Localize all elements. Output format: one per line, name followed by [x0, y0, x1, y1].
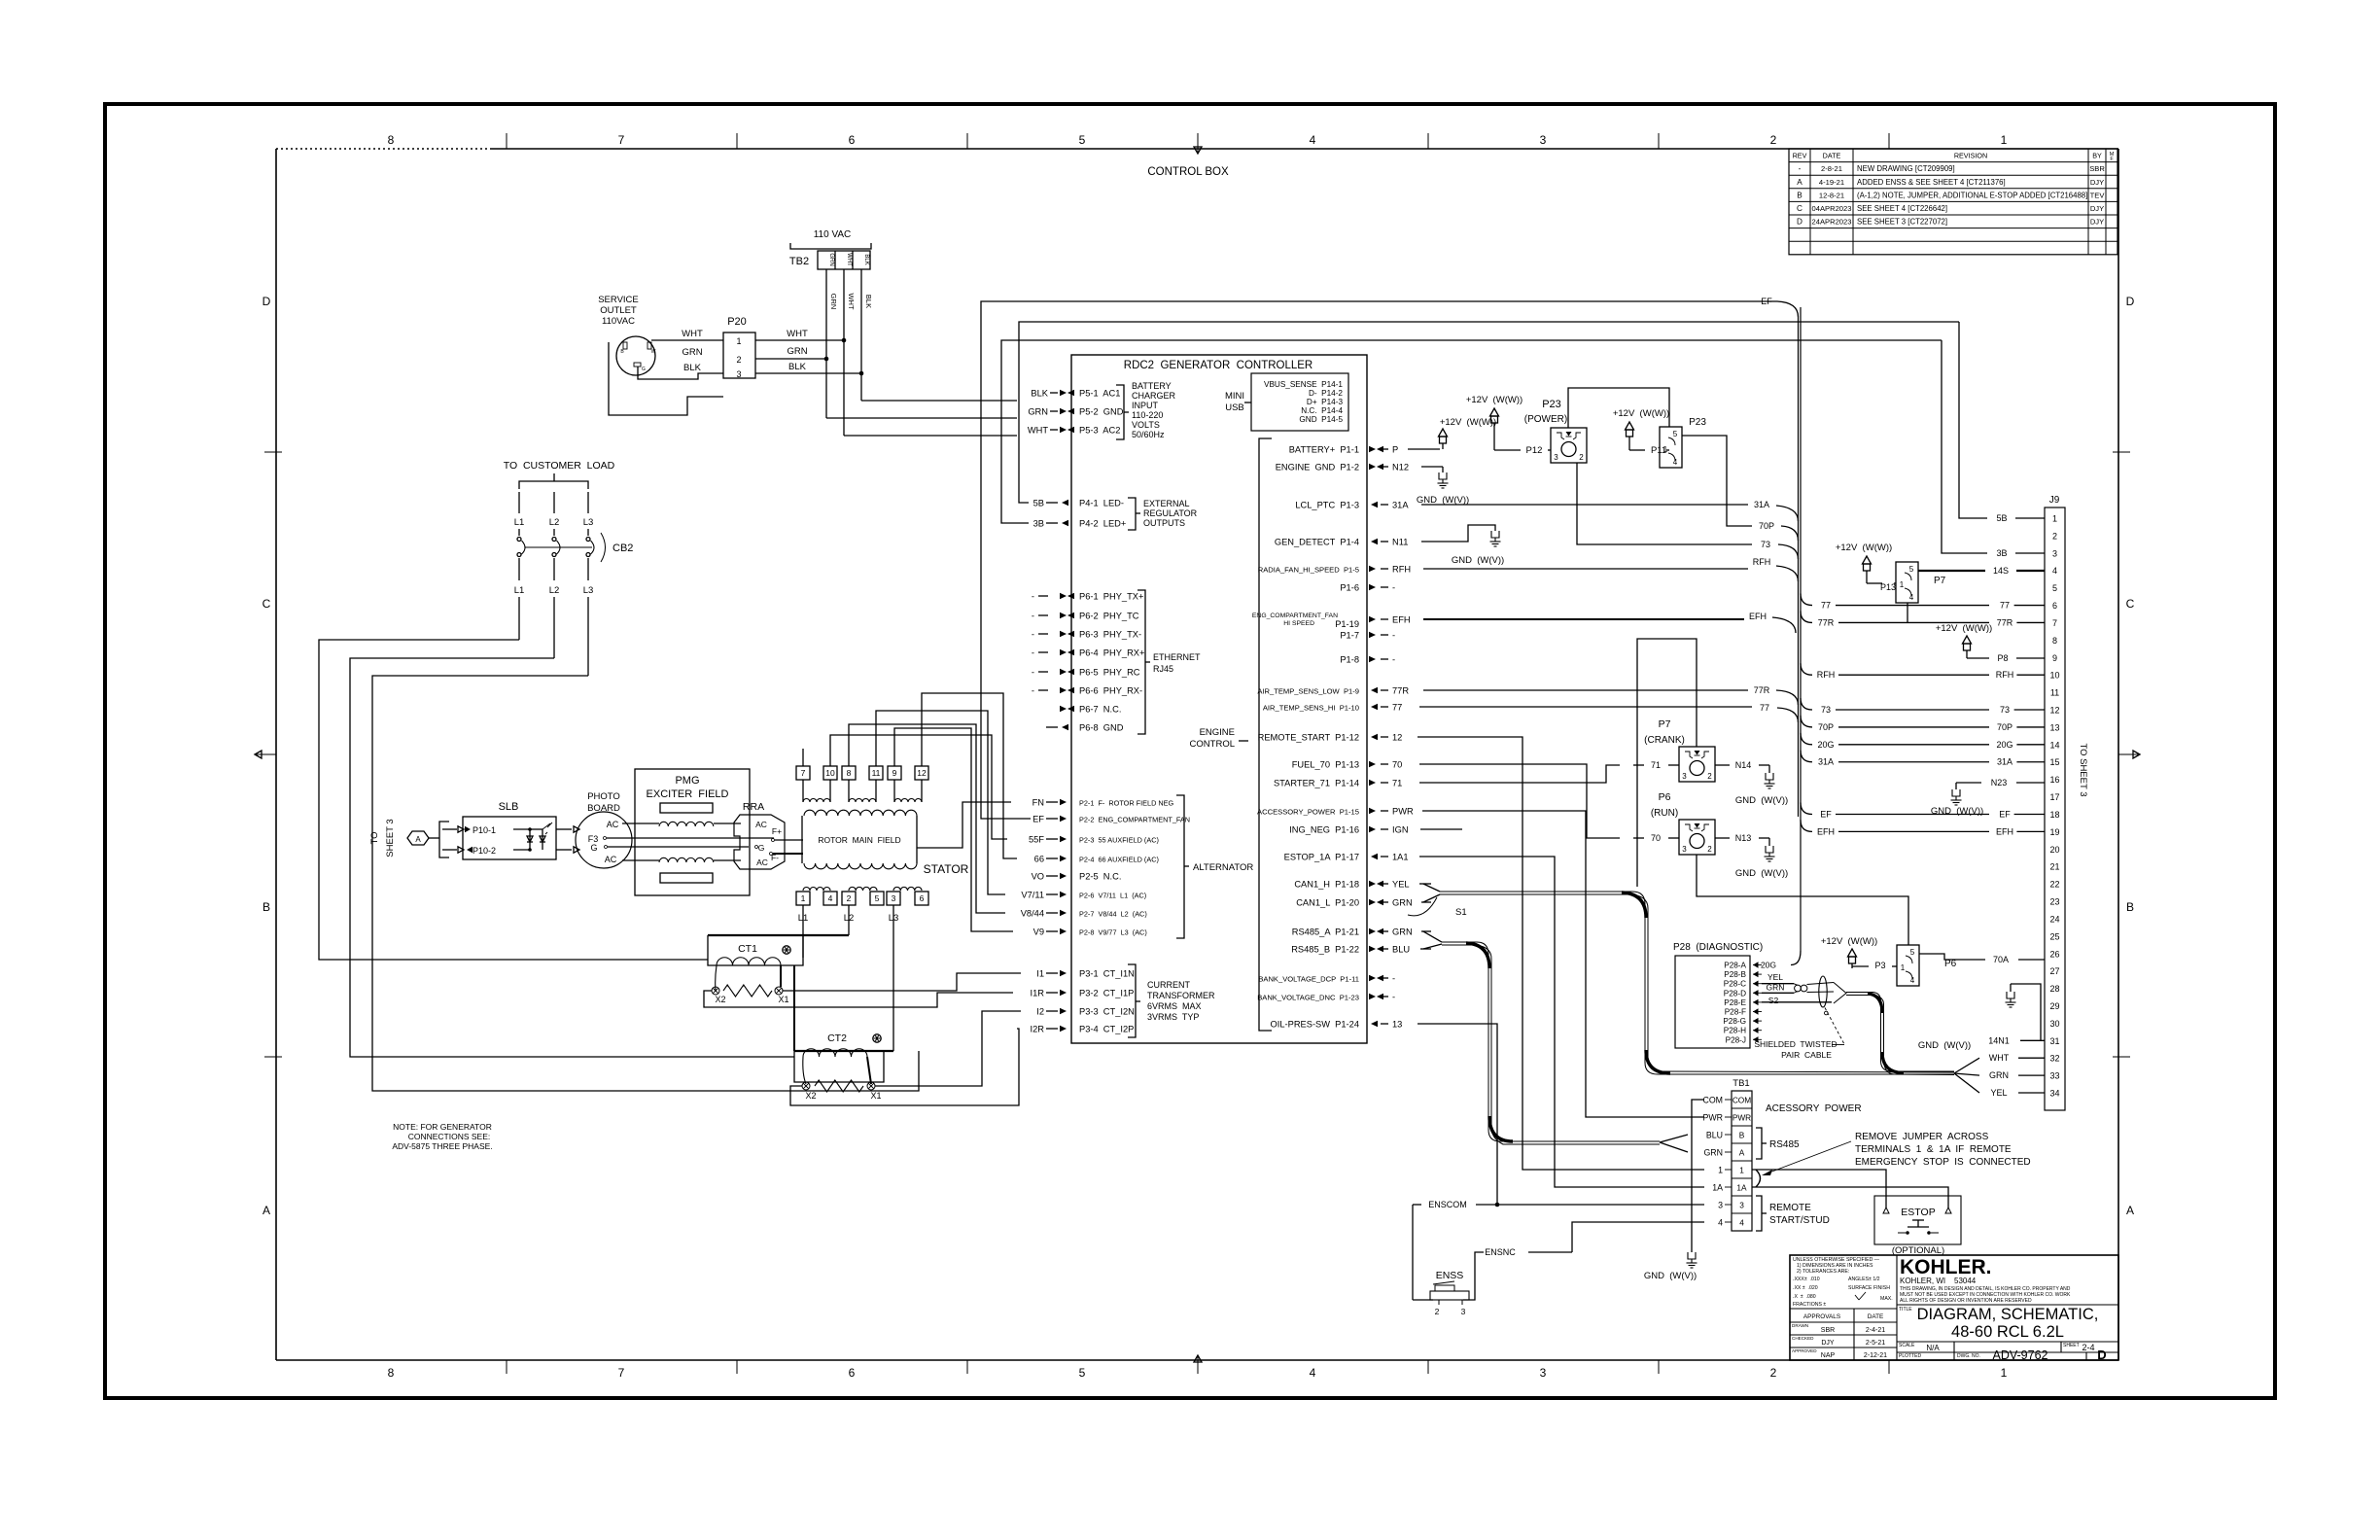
- svg-text:.XXX± .010: .XXX± .010: [1793, 1277, 1820, 1282]
- center marker bottom: [1197, 1355, 1199, 1374]
- svg-text:CAN1_L P1-20: CAN1_L P1-20: [1296, 898, 1359, 908]
- svg-text:B: B: [262, 900, 270, 914]
- svg-text:20G: 20G: [1996, 740, 2012, 750]
- svg-text:TITLE: TITLE: [1899, 1307, 1912, 1312]
- svg-text:28: 28: [2049, 984, 2059, 994]
- stator main terminal 2: [842, 892, 856, 905]
- svg-text:EMERGENCY STOP IS CONNECTED: EMERGENCY STOP IS CONNECTED: [1855, 1157, 2031, 1168]
- svg-text:ADV-5875 THREE PHASE.: ADV-5875 THREE PHASE.: [392, 1141, 492, 1151]
- svg-text:EFH: EFH: [1996, 826, 2013, 836]
- svg-text:OUTPUTS: OUTPUTS: [1143, 518, 1185, 528]
- svg-text:NOTE: FOR GENERATOR: NOTE: FOR GENERATOR: [393, 1122, 492, 1132]
- svg-text:3: 3: [1554, 453, 1558, 462]
- cable S2 drain wire: [1825, 1008, 1844, 1045]
- svg-text:S2: S2: [1768, 996, 1779, 1005]
- svg-text:(CRANK): (CRANK): [1644, 735, 1685, 746]
- svg-text:2: 2: [2052, 531, 2057, 541]
- wire P23 jumper top: [1568, 388, 1669, 428]
- CT1 primary bar: [708, 934, 849, 936]
- svg-text:04APR2023: 04APR2023: [1812, 204, 1852, 213]
- svg-text:COM: COM: [1732, 1096, 1751, 1105]
- svg-text:VBUS_SENSE P14-1: VBUS_SENSE P14-1: [1264, 380, 1343, 389]
- cable RS485 merge: [1423, 931, 1442, 942]
- svg-text:77R: 77R: [1997, 617, 2013, 627]
- svg-text:24: 24: [2049, 914, 2059, 924]
- svg-text:2-4: 2-4: [2082, 1343, 2094, 1352]
- stator aux coil 8-11: [849, 799, 876, 803]
- CB2 mechanical tie: [525, 546, 592, 548]
- svg-text:RRA: RRA: [743, 801, 764, 813]
- stator main terminal 1: [796, 892, 810, 905]
- svg-text:®: ®: [1980, 1263, 1985, 1270]
- svg-text:EF: EF: [1032, 815, 1044, 824]
- svg-text:X2: X2: [715, 995, 725, 1004]
- svg-text:77R: 77R: [1818, 617, 1835, 627]
- zone tick top: [1427, 133, 1429, 149]
- title block tolerance panel divider: [1896, 1255, 1898, 1360]
- svg-text:MAX.: MAX.: [1880, 1296, 1893, 1302]
- svg-text:CONTROL: CONTROL: [1190, 739, 1235, 750]
- PMG slot upper: [660, 803, 713, 813]
- svg-text:(POWER): (POWER): [1524, 414, 1567, 425]
- zone tick bottom: [1427, 1360, 1429, 1374]
- svg-text:-: -: [1392, 993, 1395, 1002]
- svg-text:DJY: DJY: [2090, 204, 2104, 213]
- wire 71 to P7: [1419, 765, 1620, 783]
- svg-text:N12: N12: [1392, 463, 1409, 472]
- stator main terminal 6: [915, 892, 928, 905]
- svg-text:USB: USB: [1225, 402, 1244, 413]
- svg-text:2: 2: [1770, 133, 1777, 147]
- svg-text:P2-6 V7/11 L1 (AC): P2-6 V7/11 L1 (AC): [1079, 892, 1146, 900]
- svg-text:BLU: BLU: [1392, 945, 1410, 955]
- svg-text:7: 7: [801, 768, 806, 778]
- wire P7 crank coil feed: [1637, 639, 1697, 887]
- svg-text:WHT: WHT: [682, 329, 703, 339]
- svg-text:EFH: EFH: [1817, 826, 1835, 836]
- svg-text:-: -: [1032, 592, 1034, 602]
- svg-text:73: 73: [2000, 705, 2010, 715]
- svg-text:3: 3: [1739, 1201, 1744, 1210]
- SLB input bracket: [439, 822, 449, 857]
- svg-text:P6-4 PHY_RX+: P6-4 PHY_RX+: [1079, 648, 1144, 658]
- stator aux terminal 9: [888, 766, 901, 780]
- svg-text:V9: V9: [1033, 927, 1044, 937]
- svg-text:16: 16: [2049, 775, 2059, 785]
- rs485 bracket: [1756, 1128, 1762, 1159]
- RDC2 generator controller box: [1071, 355, 1367, 1043]
- svg-text:-: -: [1392, 655, 1395, 665]
- svg-text:L3: L3: [583, 585, 594, 596]
- svg-text:BLK: BLK: [1031, 389, 1048, 399]
- svg-text:(OPTIONAL): (OPTIONAL): [1892, 1245, 1944, 1256]
- svg-text:GND (W(V)): GND (W(V)): [1735, 868, 1788, 879]
- svg-text:110 VAC: 110 VAC: [814, 229, 852, 240]
- ground N14: [1766, 773, 1773, 780]
- wire 14N1 to J9-31: [2011, 984, 2041, 1040]
- svg-text:P1-19: P1-19: [1335, 619, 1359, 629]
- wire 73 bus to J6 pin: [1801, 698, 1812, 710]
- svg-text:AC: AC: [755, 820, 767, 829]
- svg-text:PWR: PWR: [1392, 807, 1414, 817]
- outer border frame: [105, 104, 2275, 1398]
- svg-text:FUEL_70 P1-13: FUEL_70 P1-13: [1292, 760, 1359, 770]
- connector P7 near J6: [1896, 562, 1918, 603]
- svg-text:+12V (W(W)): +12V (W(W)): [1836, 542, 1892, 553]
- wire L3 lead: [892, 905, 894, 1051]
- svg-text:23: 23: [2049, 897, 2059, 907]
- svg-text:L1: L1: [514, 517, 525, 528]
- svg-text:2: 2: [1707, 845, 1712, 854]
- center marker left: [255, 753, 276, 755]
- svg-text:30: 30: [2049, 1019, 2059, 1029]
- svg-text:EF: EF: [1761, 297, 1772, 306]
- svg-text:3: 3: [1682, 772, 1687, 781]
- wire WHT to RDC2 P5-3: [844, 435, 1017, 437]
- svg-text:MINI: MINI: [1225, 391, 1244, 402]
- ethernet bracket: [1137, 590, 1145, 734]
- svg-text:BANK_VOLTAGE_DNC P1-23: BANK_VOLTAGE_DNC P1-23: [1257, 994, 1359, 1002]
- wire P12: [1494, 449, 1521, 451]
- svg-text:SURFACE FINISH: SURFACE FINISH: [1848, 1285, 1890, 1291]
- wire BLK to RDC2 P5-1: [861, 400, 1017, 402]
- svg-text:9: 9: [892, 768, 897, 778]
- svg-text:73: 73: [1821, 705, 1831, 715]
- CT2 body: [794, 1051, 884, 1082]
- mini usb box: [1251, 373, 1348, 431]
- svg-text:P6: P6: [1659, 791, 1671, 803]
- svg-text:.XX ± .020: .XX ± .020: [1793, 1285, 1818, 1291]
- svg-text:P28-D: P28-D: [1724, 989, 1746, 997]
- CT1 body: [708, 935, 803, 965]
- svg-text:70P: 70P: [1818, 722, 1834, 732]
- svg-text:B: B: [1739, 1131, 1745, 1140]
- svg-text:KOHLER.: KOHLER.: [1900, 1256, 1992, 1278]
- svg-text:6: 6: [2052, 601, 2057, 611]
- svg-text:BATTERY: BATTERY: [1132, 381, 1172, 391]
- svg-text:SHEET 3: SHEET 3: [385, 819, 396, 857]
- wire 70A to J9-26: [1919, 954, 1985, 960]
- svg-text:DIAGRAM, SCHEMATIC,: DIAGRAM, SCHEMATIC,: [1917, 1306, 2099, 1323]
- svg-text:ENSS: ENSS: [1436, 1270, 1464, 1281]
- svg-text:TB1: TB1: [1732, 1078, 1749, 1089]
- harness bus vertical 2: [1798, 317, 1800, 817]
- wire WHT outlet to P20-1: [651, 339, 723, 341]
- wire EFH join bus: [1423, 618, 1744, 620]
- wire 77R join bus: [1423, 689, 1748, 691]
- CB2 pole L1 upper lead: [518, 492, 520, 513]
- svg-text:AC: AC: [605, 855, 617, 864]
- svg-text:BANK_VOLTAGE_DCP P1-11: BANK_VOLTAGE_DCP P1-11: [1258, 975, 1359, 984]
- svg-text:DRAWN: DRAWN: [1792, 1323, 1808, 1328]
- svg-text:5: 5: [1909, 565, 1914, 574]
- svg-text:P12: P12: [1526, 445, 1543, 456]
- svg-text:2: 2: [1770, 1366, 1777, 1380]
- svg-text:P6-1 PHY_TX+: P6-1 PHY_TX+: [1079, 592, 1143, 602]
- wire 31A join bus: [1421, 504, 1748, 506]
- svg-text:20G: 20G: [1761, 961, 1776, 970]
- svg-text:SHEET: SHEET: [2063, 1343, 2080, 1348]
- svg-text:HI SPEED: HI SPEED: [1283, 620, 1314, 627]
- svg-text:5: 5: [2052, 583, 2057, 593]
- svg-text:77: 77: [1760, 703, 1769, 713]
- wire PMG upper coil to RRA: [714, 822, 741, 824]
- svg-text:CHECKED: CHECKED: [1792, 1336, 1814, 1341]
- svg-text:V7/11: V7/11: [1021, 891, 1044, 900]
- svg-text:3: 3: [1540, 1366, 1547, 1380]
- wire ENSNC: [1463, 1252, 1484, 1300]
- svg-text:P28-B: P28-B: [1724, 970, 1746, 979]
- wire 77 bus to J6 pin: [1801, 594, 1812, 606]
- svg-text:32: 32: [2049, 1054, 2059, 1064]
- svg-text:29: 29: [2049, 1001, 2059, 1011]
- wire 20G bus to J6 pin: [1801, 733, 1812, 745]
- svg-text:P28-J: P28-J: [1726, 1035, 1746, 1044]
- PMG exciter field box: [635, 769, 750, 895]
- svg-text:GND (W(V)): GND (W(V)): [1931, 806, 1983, 817]
- svg-text:GRN: GRN: [1392, 898, 1413, 908]
- svg-text:2: 2: [847, 893, 852, 903]
- zone tick top: [506, 133, 507, 149]
- svg-text:34: 34: [2049, 1089, 2059, 1099]
- svg-text:70A: 70A: [1993, 955, 2009, 964]
- svg-text:3: 3: [1718, 1201, 1723, 1210]
- connector P7 CRANK: [1679, 747, 1715, 782]
- svg-text:REVISION: REVISION: [1954, 152, 1987, 160]
- wire RFH bus to J6 pin: [1801, 663, 1812, 675]
- svg-text:TERMINALS 1 & 1A IF REMOT: TERMINALS 1 & 1A IF REMOTE: [1855, 1144, 2012, 1155]
- svg-text:2-4-21: 2-4-21: [1866, 1327, 1885, 1334]
- svg-text:W: W: [651, 349, 656, 355]
- svg-text:-: -: [1032, 648, 1034, 658]
- svg-text:P6-7 N.C.: P6-7 N.C.: [1079, 705, 1121, 715]
- svg-text:RS485_A P1-21: RS485_A P1-21: [1292, 927, 1359, 937]
- svg-text:OUTLET: OUTLET: [600, 305, 637, 316]
- CT1 secondary leads: [716, 965, 717, 991]
- svg-text:P6-5 PHY_RC: P6-5 PHY_RC: [1079, 668, 1140, 678]
- jumper leader: [1769, 1141, 1851, 1172]
- svg-text:3: 3: [2052, 548, 2057, 558]
- wire TB1-1A to ESTOP: [1752, 1187, 1948, 1207]
- svg-text:26: 26: [2049, 949, 2059, 959]
- svg-text:22: 22: [2049, 880, 2059, 890]
- off-sheet hexagon A: [407, 831, 429, 845]
- svg-text:P2-3 55 AUXFIELD (AC): P2-3 55 AUXFIELD (AC): [1079, 836, 1159, 845]
- svg-text:B: B: [2126, 900, 2134, 914]
- wire EF bus to J6 pin: [1801, 802, 1812, 814]
- svg-text:1: 1: [1900, 580, 1905, 589]
- terminal block TB1: [1732, 1091, 1752, 1231]
- svg-text:2: 2: [736, 355, 741, 365]
- svg-text:12: 12: [917, 768, 927, 778]
- svg-text:-: -: [1032, 668, 1034, 678]
- svg-text:ACESSORY POWER: ACESSORY POWER: [1766, 1103, 1862, 1114]
- wire PMG lower coil to RRA: [714, 859, 741, 861]
- svg-text:25: 25: [2049, 931, 2059, 941]
- wire L3 left run: [372, 676, 919, 1091]
- svg-text:70: 70: [1651, 833, 1661, 843]
- connector P20: [723, 332, 755, 378]
- svg-text:APPROVALS: APPROVALS: [1803, 1313, 1840, 1320]
- svg-text:ENGINE GND P1-2: ENGINE GND P1-2: [1276, 463, 1359, 472]
- wire 31A bus to J6 pin: [1801, 751, 1812, 762]
- svg-text:PHOTO: PHOTO: [587, 791, 620, 802]
- svg-text:1: 1: [1663, 445, 1668, 454]
- cable S2 shield cone: [1834, 983, 1846, 1004]
- wire YEL CAN1_H: [1419, 883, 1431, 885]
- connector J9 strip: [2045, 507, 2065, 1110]
- svg-text:2-5-21: 2-5-21: [1866, 1340, 1885, 1347]
- svg-text:33: 33: [2049, 1071, 2059, 1081]
- svg-text:1A: 1A: [1736, 1183, 1747, 1193]
- stator main coil 2-5: [849, 887, 877, 891]
- stator main terminal 4: [823, 892, 837, 905]
- wire P7 connector stub: [1907, 603, 1908, 622]
- svg-text:NEW DRAWING [CT209909]: NEW DRAWING [CT209909]: [1857, 164, 1955, 173]
- wire IGN stub: [1420, 828, 1462, 830]
- wire 3B to J9-3: [1942, 340, 1987, 553]
- svg-text:ETHERNET: ETHERNET: [1153, 652, 1201, 662]
- svg-text:I1R: I1R: [1031, 989, 1045, 998]
- svg-text:TB2: TB2: [789, 256, 809, 267]
- wire P8 to J9-9: [1967, 657, 1989, 659]
- svg-text:4: 4: [2052, 566, 2057, 576]
- svg-text:GND (W(V)): GND (W(V)): [1735, 795, 1788, 806]
- RRA body: [734, 815, 785, 869]
- svg-text:L1: L1: [514, 585, 525, 596]
- wire L2 lead: [848, 905, 850, 935]
- svg-text:70P: 70P: [1759, 521, 1774, 531]
- svg-text:PMG: PMG: [675, 775, 699, 787]
- svg-text:3: 3: [1461, 1307, 1466, 1316]
- svg-text:+12V (W(W)): +12V (W(W)): [1440, 417, 1496, 428]
- svg-text:P10-2: P10-2: [472, 846, 496, 856]
- revision table grid: [1789, 149, 2117, 255]
- wire 77 join bus: [1419, 706, 1752, 708]
- svg-text:24APR2023: 24APR2023: [1812, 218, 1852, 227]
- svg-text:RFH: RFH: [1996, 670, 2014, 680]
- svg-text:1: 1: [1718, 1166, 1723, 1175]
- CT2 secondary leads: [803, 1057, 806, 1084]
- svg-text:1: 1: [2052, 514, 2057, 524]
- svg-text:(RUN): (RUN): [1651, 808, 1678, 819]
- wire F- to rotor: [773, 853, 803, 855]
- svg-text:DJY: DJY: [2090, 218, 2104, 227]
- svg-text:CAN1_H P1-18: CAN1_H P1-18: [1294, 880, 1359, 890]
- svg-text:EFH: EFH: [1749, 612, 1767, 621]
- connector P23 (P11): [1660, 427, 1682, 468]
- svg-text:WHT: WHT: [787, 329, 808, 339]
- CT1 terminal X1: [775, 987, 783, 995]
- wire FN from rotor: [917, 802, 1011, 848]
- zone tick bottom: [966, 1360, 968, 1374]
- svg-text:P10-1: P10-1: [472, 825, 496, 835]
- svg-text:CONTROL BOX: CONTROL BOX: [1147, 166, 1229, 178]
- svg-text:N14: N14: [1735, 760, 1752, 770]
- svg-text:CT1: CT1: [738, 943, 757, 955]
- wire GRN P20-2 to TB2: [755, 358, 826, 360]
- ground N11: [1491, 531, 1499, 538]
- CB2 pole L1 contacts: [517, 538, 521, 542]
- center marker right: [2118, 753, 2140, 755]
- wire BLK from TB2: [860, 269, 862, 401]
- svg-text:ALTERNATOR: ALTERNATOR: [1193, 862, 1253, 873]
- svg-text:DWG. NO.: DWG. NO.: [1957, 1353, 1980, 1359]
- svg-text:WHT: WHT: [846, 253, 852, 266]
- svg-text:4: 4: [1739, 1218, 1744, 1228]
- wire CT1 to CT2 link: [793, 965, 795, 1051]
- svg-text:AC: AC: [607, 820, 619, 829]
- svg-text:10: 10: [825, 768, 835, 778]
- svg-text:N23: N23: [1991, 778, 2008, 787]
- svg-text:3: 3: [736, 369, 741, 379]
- wire BLK P20-3: [755, 372, 861, 374]
- wire COM to ground: [1692, 1100, 1704, 1252]
- svg-text:-: -: [1392, 974, 1395, 984]
- svg-text:P4-1 LED-: P4-1 LED-: [1079, 499, 1124, 508]
- svg-text:P3-2 CT_I1P: P3-2 CT_I1P: [1079, 989, 1134, 998]
- wire GRN to RDC2 P5-2: [826, 417, 1017, 419]
- wire P3: [1852, 965, 1869, 967]
- svg-text:31A: 31A: [1818, 757, 1834, 767]
- svg-text:WHT: WHT: [1028, 426, 1048, 436]
- svg-text:2: 2: [1435, 1307, 1440, 1316]
- svg-text:P6-8 GND: P6-8 GND: [1079, 723, 1124, 733]
- svg-text:5: 5: [1079, 133, 1086, 147]
- CB2 pole L3 contacts: [586, 538, 590, 542]
- svg-text:P28 (DIAGNOSTIC): P28 (DIAGNOSTIC): [1673, 942, 1763, 953]
- harness bus vertical: [1800, 307, 1802, 951]
- wire I2R CT2-X2 to P3-4: [790, 1029, 1019, 1105]
- svg-text:-: -: [1392, 583, 1395, 593]
- wire PWR from P1-15: [1422, 811, 1704, 1117]
- svg-text:YEL: YEL: [1767, 972, 1783, 982]
- svg-text:1: 1: [801, 893, 806, 903]
- svg-text:27: 27: [2049, 966, 2059, 976]
- svg-text:X1: X1: [870, 1091, 881, 1101]
- wire hexagon to SLB bracket: [429, 837, 439, 839]
- svg-text:-: -: [1032, 686, 1034, 696]
- svg-text:P1-6: P1-6: [1340, 583, 1359, 593]
- CT2 secondary coil: [803, 1049, 867, 1057]
- stator aux terminal 10: [823, 766, 837, 780]
- zone tick top: [966, 133, 968, 149]
- wire 8 to V8/44: [849, 724, 1005, 913]
- zone tick top: [1658, 133, 1660, 149]
- CT1 polarity mark: [783, 946, 790, 954]
- svg-text:EF: EF: [1999, 809, 2011, 819]
- svg-text:X2: X2: [805, 1091, 816, 1101]
- svg-text:31A: 31A: [1997, 757, 2012, 767]
- wire GRN RS485_A: [1421, 930, 1431, 932]
- svg-text:P2-2 ENG_COMPARTMENT_FAN: P2-2 ENG_COMPARTMENT_FAN: [1079, 816, 1190, 824]
- wire 14S to J9-4: [1918, 570, 1985, 572]
- CT2 terminal X2: [802, 1082, 810, 1090]
- svg-text:4: 4: [1310, 1366, 1316, 1380]
- svg-text:5: 5: [1079, 1366, 1086, 1380]
- CB2 pole L2 upper lead: [553, 492, 555, 513]
- wire 77R bus to J6 pin: [1801, 611, 1812, 622]
- wire I1R CT1-X2 to P3-2: [704, 991, 1013, 1007]
- svg-text:STARTER_71 P1-14: STARTER_71 P1-14: [1274, 779, 1359, 788]
- svg-text:8: 8: [2052, 636, 2057, 646]
- svg-text:X1: X1: [778, 995, 788, 1004]
- svg-text:+12V (W(W)): +12V (W(W)): [1936, 623, 1992, 634]
- cable S1 merge: [1423, 884, 1440, 892]
- svg-text:ROTOR MAIN FIELD: ROTOR MAIN FIELD: [818, 835, 900, 845]
- svg-text:21: 21: [2049, 862, 2059, 872]
- svg-text:I2: I2: [1036, 1007, 1044, 1017]
